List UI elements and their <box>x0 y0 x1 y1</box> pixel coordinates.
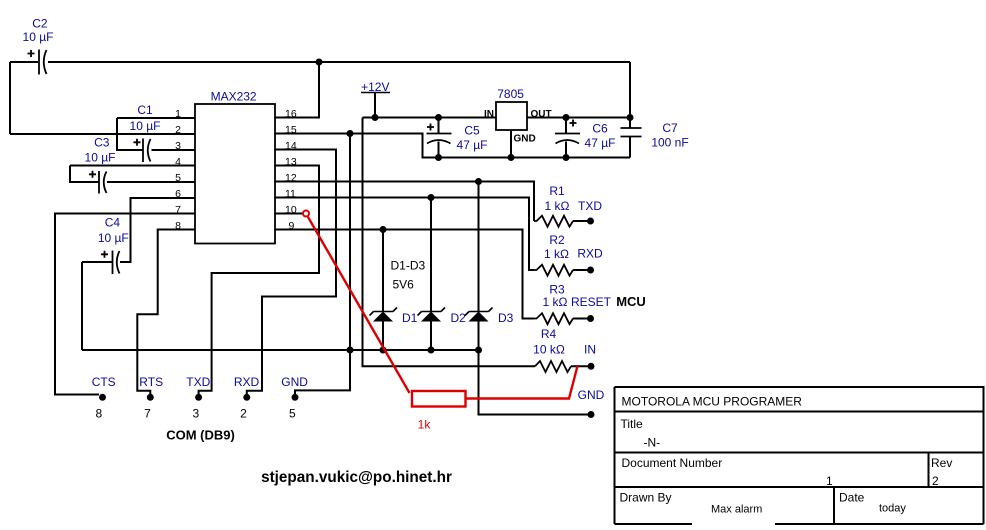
svg-text:Rev: Rev <box>931 456 952 470</box>
title block rule under header <box>615 411 984 413</box>
label C5 <box>457 124 488 152</box>
wire R2 lead to RXD dot <box>573 269 590 271</box>
wire C7 top lead <box>629 118 631 129</box>
wire D2 vertical bottom <box>430 322 432 351</box>
wire pin9 to R3 <box>275 230 534 319</box>
node GND rail left junction <box>347 347 354 354</box>
svg-text:8: 8 <box>175 220 181 232</box>
wire D3 vertical bottom <box>478 322 480 351</box>
svg-text:47 µF: 47 µF <box>457 138 488 152</box>
wire D3 to MCU GND <box>479 350 592 415</box>
node DB9 pin2 RXD <box>243 394 250 401</box>
svg-text:RTS: RTS <box>139 375 163 389</box>
node pin9 D1 junction <box>380 226 387 233</box>
svg-text:TXD: TXD <box>186 375 210 389</box>
svg-text:MOTOROLA MCU PROGRAMER: MOTOROLA MCU PROGRAMER <box>622 395 803 409</box>
wire OUT rail <box>527 117 630 119</box>
svg-text:Title: Title <box>621 417 644 431</box>
svg-text:GND: GND <box>281 375 308 389</box>
wire D1 vertical bottom <box>382 322 384 351</box>
wire 7805 GND stub <box>510 130 512 158</box>
svg-text:11: 11 <box>285 188 296 200</box>
wire pin4 to C3 <box>70 166 99 183</box>
svg-text:10 µF: 10 µF <box>85 151 116 165</box>
capacitor C2 <box>28 50 47 75</box>
wire pin2 line <box>10 133 195 135</box>
svg-text:R4: R4 <box>541 327 557 341</box>
svg-text:D3: D3 <box>498 311 514 325</box>
svg-text:1: 1 <box>826 474 833 488</box>
wire pin8 to RTS <box>137 230 195 395</box>
svg-text:C6: C6 <box>592 122 608 136</box>
svg-text:TXD: TXD <box>578 199 602 213</box>
wire D3 vertical top <box>478 182 480 312</box>
svg-text:7: 7 <box>175 204 181 216</box>
label R4 <box>533 327 596 356</box>
wire C4 right lead to pin6 <box>120 198 195 262</box>
svg-text:C3: C3 <box>94 136 110 150</box>
svg-text:1 kΩ: 1 kΩ <box>544 247 569 261</box>
node OUT rail top junction <box>627 114 634 121</box>
node MCU GND pin <box>588 411 595 418</box>
svg-text:3: 3 <box>175 140 181 152</box>
wire pin16 to top rail <box>275 62 319 118</box>
wire pin1 <box>117 117 195 119</box>
resistor R3 zigzag <box>534 313 573 324</box>
svg-text:C1: C1 <box>137 103 153 117</box>
capacitor C4 <box>101 251 120 275</box>
svg-text:3: 3 <box>193 407 200 421</box>
capacitor C7 <box>621 128 642 137</box>
wire pin14 to RXD <box>247 150 336 395</box>
wire red diagonal from pin10 <box>308 217 410 393</box>
svg-text:5V6: 5V6 <box>393 278 415 292</box>
wire D1 vertical top <box>382 230 384 312</box>
svg-text:10: 10 <box>285 204 297 216</box>
svg-text:OUT: OUT <box>531 109 552 120</box>
wire main GND rail <box>82 349 479 351</box>
svg-text:2: 2 <box>175 124 181 136</box>
node DB9 pin5 GND <box>292 394 299 401</box>
node D3 GND junction <box>475 347 482 354</box>
svg-text:12: 12 <box>285 172 297 184</box>
node C6 top junction <box>563 114 570 121</box>
label R3 <box>543 283 612 310</box>
svg-text:Max alarm: Max alarm <box>711 504 762 516</box>
svg-text:9: 9 <box>289 220 295 232</box>
svg-text:C4: C4 <box>105 216 121 230</box>
diode D3 zener <box>465 308 493 322</box>
wire R1 lead to TXD dot <box>573 220 590 222</box>
node 7805 GND junction <box>508 154 515 161</box>
title block rev divider <box>928 453 930 488</box>
wire IN rail <box>363 117 497 119</box>
wire C6 top lead <box>565 118 567 134</box>
svg-text:C7: C7 <box>662 121 678 135</box>
wire top rail <box>10 61 38 63</box>
wire pin12 to R1 <box>275 182 534 222</box>
capacitor C1 <box>134 139 151 163</box>
svg-text:15: 15 <box>285 124 297 136</box>
svg-text:R2: R2 <box>549 233 565 247</box>
node MCU RESET pin <box>587 315 594 322</box>
title block drawn/date divider <box>833 487 835 524</box>
ic MAX232 U1 body <box>195 104 275 244</box>
wire D2 vertical top <box>430 198 432 312</box>
svg-text:10 µF: 10 µF <box>130 119 161 133</box>
label C3 <box>85 136 116 165</box>
svg-text:IN: IN <box>584 343 596 357</box>
svg-text:Document Number: Document Number <box>622 456 723 470</box>
title block bottom border left segment <box>615 523 693 525</box>
svg-text:COM (DB9): COM (DB9) <box>166 428 235 443</box>
node MCU IN pin <box>588 363 595 370</box>
svg-text:2: 2 <box>932 474 939 488</box>
diode D1 zener <box>370 308 398 322</box>
node C5 top junction <box>435 114 442 121</box>
svg-text:47 µF: 47 µF <box>585 136 616 150</box>
svg-text:1: 1 <box>175 108 181 120</box>
svg-text:16: 16 <box>285 108 297 120</box>
svg-text:7805: 7805 <box>497 87 524 101</box>
svg-text:7: 7 <box>144 407 151 421</box>
wire pin13 to TXD <box>199 166 319 395</box>
svg-text:C5: C5 <box>464 124 480 138</box>
svg-text:5: 5 <box>289 407 296 421</box>
title block rule under title row <box>615 452 984 454</box>
svg-text:D1: D1 <box>402 311 418 325</box>
wire pin15 GND <box>275 134 630 158</box>
label C1 <box>130 103 161 133</box>
wire C7 bottom lead <box>629 137 631 158</box>
svg-text:IN: IN <box>484 109 494 120</box>
node C5 bottom junction <box>435 154 442 161</box>
wire C5 top lead <box>438 118 440 134</box>
wire pin4 <box>70 165 195 167</box>
svg-text:10 µF: 10 µF <box>98 231 129 245</box>
node DB9 pin7 RTS <box>147 394 154 401</box>
svg-text:GND: GND <box>514 134 536 145</box>
wire C1 to pin3 <box>152 149 196 151</box>
svg-text:13: 13 <box>285 156 297 168</box>
svg-text:stjepan.vukic@po.hinet.hr: stjepan.vukic@po.hinet.hr <box>261 469 452 486</box>
wire right drop to OUT rail <box>629 62 631 118</box>
svg-text:10 kΩ: 10 kΩ <box>533 343 565 357</box>
wire pin11 to R2 <box>275 198 534 271</box>
resistor R2 zigzag <box>534 265 573 276</box>
regulator 7805 body <box>496 102 527 130</box>
capacitor C3 <box>89 171 107 194</box>
svg-text:today: today <box>879 503 906 515</box>
resistor R1 zigzag <box>534 216 573 227</box>
wire +12V drop to R4 <box>363 118 536 367</box>
wire top rail right of C2 <box>48 61 630 63</box>
wire red from 1k to IN <box>466 366 578 399</box>
svg-text:CTS: CTS <box>92 375 116 389</box>
svg-text:MCU: MCU <box>616 294 646 309</box>
wire C6 bottom lead <box>565 142 567 158</box>
svg-text:100 nF: 100 nF <box>651 136 688 150</box>
svg-text:D2: D2 <box>451 311 467 325</box>
title block rule under document row <box>615 486 984 488</box>
node MCU RXD pin <box>587 267 594 274</box>
wire C4 left vertical <box>81 262 83 350</box>
svg-text:1k: 1k <box>418 418 432 432</box>
wire pin7 to CTS <box>55 214 195 395</box>
node pin10 red terminal circle <box>303 211 309 217</box>
wire left vertical <box>9 62 11 134</box>
svg-text:8: 8 <box>96 407 103 421</box>
svg-text:-N-: -N- <box>644 436 661 450</box>
node DB9 pin8 CTS <box>99 394 106 401</box>
wire C5 bottom lead <box>438 142 440 158</box>
svg-text:MAX232: MAX232 <box>211 90 257 104</box>
svg-text:GND: GND <box>578 388 605 402</box>
svg-text:D1-D3: D1-D3 <box>391 259 426 273</box>
svg-text:+12V: +12V <box>361 80 389 94</box>
svg-text:RXD: RXD <box>577 247 603 261</box>
node pin11 D2 junction <box>428 194 435 201</box>
wire C4 left lead <box>82 261 113 263</box>
svg-text:RESET: RESET <box>571 295 612 309</box>
svg-text:Drawn By: Drawn By <box>620 491 672 505</box>
wire R4 lead to IN <box>571 365 591 367</box>
svg-text:Date: Date <box>839 491 865 505</box>
svg-text:R1: R1 <box>549 184 565 198</box>
node D2 GND junction <box>428 347 435 354</box>
node C6 bottom junction <box>563 154 570 161</box>
svg-text:5: 5 <box>175 172 181 184</box>
capacitor C6 <box>555 120 580 144</box>
label C4 <box>98 216 129 246</box>
svg-text:2: 2 <box>240 407 247 421</box>
svg-text:1 kΩ: 1 kΩ <box>545 199 570 213</box>
title block outer border <box>615 387 984 524</box>
wire +12V stub <box>374 93 376 118</box>
label C7 <box>651 121 688 150</box>
wire GND vertical to DB9 pin5 <box>295 134 350 395</box>
svg-text:14: 14 <box>285 140 297 152</box>
wire R3 lead to RESET dot <box>573 318 590 320</box>
wire C3 to pin5 <box>107 181 195 183</box>
svg-text:RXD: RXD <box>234 375 260 389</box>
svg-text:1 kΩ: 1 kΩ <box>543 295 568 309</box>
diode D2 zener <box>418 308 446 322</box>
title block bottom border right segment <box>775 523 984 525</box>
node pin12 D3 junction <box>475 178 482 185</box>
svg-text:C2: C2 <box>32 17 48 31</box>
label R2 <box>544 233 603 261</box>
label R1 <box>545 184 603 213</box>
node +12V junction <box>372 114 379 121</box>
capacitor C5 <box>427 124 452 144</box>
resistor 1k red body <box>412 391 466 407</box>
svg-text:6: 6 <box>175 188 181 200</box>
svg-text:10 µF: 10 µF <box>23 30 54 44</box>
resistor R4 zigzag <box>535 361 571 372</box>
svg-text:4: 4 <box>175 156 181 168</box>
node DB9 pin3 TXD <box>195 394 202 401</box>
label C2 <box>23 17 54 45</box>
wire pin1 to C1 <box>117 118 143 150</box>
node MCU TXD pin <box>587 218 594 225</box>
node top rail pin16 junction <box>316 59 323 66</box>
wire pin10 stub <box>275 213 303 215</box>
node pin15 GND junction <box>347 130 354 137</box>
node D1 GND junction <box>380 347 387 354</box>
label C6 <box>585 122 616 151</box>
label +12V <box>361 80 390 94</box>
